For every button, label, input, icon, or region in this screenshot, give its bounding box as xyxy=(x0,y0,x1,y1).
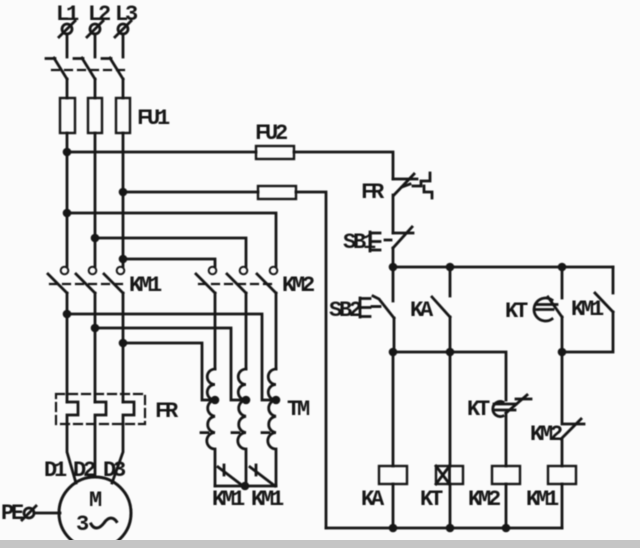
svg-text:D1: D1 xyxy=(44,458,67,483)
svg-text:KT: KT xyxy=(505,299,528,324)
svg-text:KM1: KM1 xyxy=(526,487,559,512)
svg-text:PE: PE xyxy=(1,501,24,526)
svg-text:TM: TM xyxy=(287,397,310,422)
svg-text:FU1: FU1 xyxy=(137,106,170,131)
svg-text:KT: KT xyxy=(467,397,490,422)
svg-text:KM1: KM1 xyxy=(251,487,284,512)
svg-text:KT: KT xyxy=(420,487,443,512)
svg-text:L2: L2 xyxy=(88,2,110,27)
svg-text:L1: L1 xyxy=(56,2,79,27)
svg-text:L3: L3 xyxy=(115,2,138,27)
svg-text:M: M xyxy=(89,488,102,513)
svg-text:SB1: SB1 xyxy=(343,230,376,255)
svg-text:KM2: KM2 xyxy=(468,487,500,512)
svg-text:KM1: KM1 xyxy=(571,297,604,322)
svg-text:KM2: KM2 xyxy=(282,273,314,298)
svg-text:D3: D3 xyxy=(103,458,126,483)
svg-text:SB2: SB2 xyxy=(329,298,361,323)
svg-text:KM2: KM2 xyxy=(530,422,562,447)
svg-text:KM1: KM1 xyxy=(212,487,245,512)
svg-text:D2: D2 xyxy=(73,458,95,483)
svg-text:KM1: KM1 xyxy=(129,273,162,298)
svg-text:FU2: FU2 xyxy=(255,121,287,146)
svg-text:3: 3 xyxy=(76,512,89,537)
